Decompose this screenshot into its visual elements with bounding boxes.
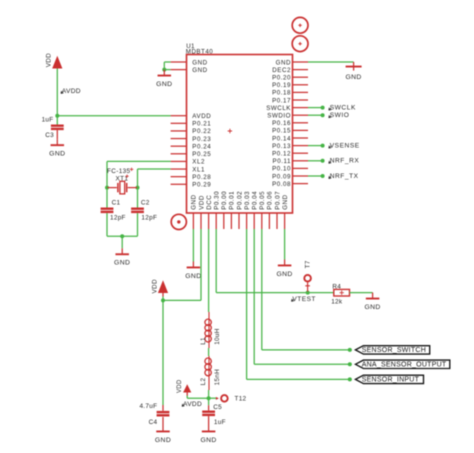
svg-text:P0.04: P0.04 <box>252 191 259 210</box>
svg-text:GND: GND <box>49 151 65 158</box>
node SWIO wire end dot <box>321 113 325 117</box>
svg-text:P0.14: P0.14 <box>272 135 291 142</box>
svg-text:P0.19: P0.19 <box>272 82 291 89</box>
ground below C4 <box>155 426 171 444</box>
node AVDD junction <box>55 114 59 118</box>
wire net ANA_SENSOR_OUTPUT vertical <box>253 229 255 364</box>
U1 right pin P0.11 <box>273 158 308 165</box>
U1 bottom pin P0.05 <box>259 191 266 229</box>
U1 bottom pin DCC <box>206 195 213 229</box>
svg-text:VDD: VDD <box>151 279 158 293</box>
svg-text:GND: GND <box>276 59 291 66</box>
svg-text:GND: GND <box>156 81 172 88</box>
wire down to crystal ground <box>121 236 123 248</box>
svg-text:SWIO: SWIO <box>330 112 350 119</box>
svg-text:VDD: VDD <box>177 379 183 393</box>
wire junction down to C5 <box>208 398 210 410</box>
U1 right pin P0.14 <box>272 135 308 142</box>
svg-text:AVDD: AVDD <box>62 88 81 95</box>
value label 1uF (C5) <box>214 419 226 426</box>
refdes label L2 <box>200 378 207 386</box>
U1 right pin P0.18 <box>272 90 308 97</box>
wire junction to AVDD supply <box>187 397 208 399</box>
wire R4 to ground <box>350 292 373 294</box>
svg-text:C4: C4 <box>149 419 158 426</box>
svg-text:P0.22: P0.22 <box>192 128 211 135</box>
value label 12pF (C2) <box>141 214 157 221</box>
U1 left pin P0.25 <box>171 151 212 158</box>
svg-text:P0.00: P0.00 <box>221 191 228 210</box>
svg-text:SWDIO: SWDIO <box>267 113 291 120</box>
wire VDD down to C4 <box>162 300 164 410</box>
U1 left pin P0.21 <box>171 121 212 128</box>
wire AVDD vertical from VDD arrow <box>56 69 58 116</box>
node NRF_RX wire end dot <box>321 159 325 163</box>
IC U1 MDBT40 body <box>187 55 293 214</box>
ground left of U1 <box>156 70 172 88</box>
IC U1 refdes label U1 <box>186 43 195 50</box>
wire VDD arrow to junction <box>162 297 164 301</box>
wire GND pin2 <box>164 69 170 71</box>
svg-text:C2: C2 <box>141 200 150 207</box>
svg-text:P0.09: P0.09 <box>272 173 291 180</box>
svg-text:T12: T12 <box>235 396 247 403</box>
wire VDD pin down <box>200 229 202 300</box>
wire net SENSOR_SWITCH horizontal <box>262 349 352 351</box>
U1 bottom pin P0.03 <box>244 191 251 229</box>
ground below C1 C2 <box>114 248 130 266</box>
svg-text:P0.28: P0.28 <box>192 174 211 181</box>
ground below U1 left <box>185 262 201 280</box>
U1 bottom pin P0.00 <box>221 191 228 229</box>
svg-text:GND: GND <box>200 437 216 444</box>
refdes label XT1 <box>116 175 129 183</box>
capacitor C1 <box>101 208 114 214</box>
U1 right pin P0.12 <box>272 151 308 158</box>
label AVDD (bottom) <box>182 401 202 408</box>
wire net SWIO stub <box>308 114 323 116</box>
mounting hole H3 (circle with dot) <box>171 214 186 229</box>
svg-text:C1: C1 <box>112 200 121 207</box>
U1 right pin P0.10 <box>272 166 308 173</box>
svg-text:10uH: 10uH <box>214 328 221 345</box>
wire U1 GND bottom-right pin down <box>284 229 286 260</box>
svg-text:GND: GND <box>345 74 361 81</box>
svg-text:P0.30: P0.30 <box>214 191 221 210</box>
wire XL1 to crystal <box>138 169 171 188</box>
svg-text:P0.12: P0.12 <box>272 151 291 158</box>
svg-text:P0.13: P0.13 <box>272 143 291 150</box>
wire P0.30 down <box>215 229 217 293</box>
wire VTEST horizontal <box>216 292 334 294</box>
label net NRF_RX <box>329 158 360 165</box>
U1 right pin P0.15 <box>272 128 308 135</box>
svg-text:AVDD: AVDD <box>183 401 202 408</box>
svg-text:P0.01: P0.01 <box>229 191 236 210</box>
svg-text:VDD: VDD <box>198 195 205 210</box>
wire crystal left to C1 <box>106 188 108 208</box>
svg-text:FC-135: FC-135 <box>107 168 131 175</box>
U1 bottom pin GND <box>191 194 198 229</box>
svg-text:GND: GND <box>192 67 207 74</box>
value label 1uF (C3) <box>42 116 54 123</box>
label net SWCLK <box>329 105 356 112</box>
svg-text:L2: L2 <box>200 378 207 386</box>
wire C2 down <box>137 213 139 236</box>
refdes label L1 <box>200 337 207 345</box>
capacitor C3 <box>51 125 64 131</box>
value label 12pF (C1) <box>110 214 126 221</box>
wire C1 down <box>106 213 108 236</box>
U1 left pin P0.23 <box>171 136 212 143</box>
U1 bottom pin VDD <box>198 195 205 229</box>
U1 right pin DEC2 <box>272 67 308 74</box>
refdes label C1 <box>112 200 121 207</box>
wire L1 to L2 <box>208 348 210 356</box>
svg-text:P0.15: P0.15 <box>272 128 291 135</box>
svg-text:GND: GND <box>191 194 198 209</box>
wire C3 to ground <box>56 130 58 139</box>
wire net NRF_RX stub <box>308 160 323 162</box>
ground right of R4 <box>364 293 380 311</box>
svg-text:VSENSE: VSENSE <box>330 143 360 150</box>
svg-text:NRF_RX: NRF_RX <box>330 158 360 165</box>
wire net VSENSE stub <box>308 145 323 147</box>
U1 right pin SWDIO <box>267 113 308 120</box>
U1 right pin P0.17 <box>272 97 308 104</box>
svg-text:L1: L1 <box>200 337 207 345</box>
svg-text:C3: C3 <box>45 132 54 139</box>
svg-text:GND: GND <box>155 437 171 444</box>
svg-text:P0.05: P0.05 <box>259 191 266 210</box>
svg-text:DEC2: DEC2 <box>272 67 291 74</box>
svg-text:1uF: 1uF <box>214 419 226 426</box>
svg-text:4.7uF: 4.7uF <box>139 403 157 410</box>
wire AVDD supply stub <box>186 396 188 399</box>
svg-text:AVDD: AVDD <box>192 113 211 120</box>
label AVDD <box>61 88 81 95</box>
value label 15nH (L2) <box>214 369 221 386</box>
svg-text:T7: T7 <box>304 260 311 268</box>
U1 right pin P0.16 <box>272 120 308 127</box>
label net VTEST <box>291 296 316 303</box>
capacitor C4 <box>157 411 170 417</box>
svg-text:SWCLK: SWCLK <box>266 105 291 112</box>
svg-text:GND: GND <box>282 194 289 209</box>
label net NRF_TX <box>329 173 359 180</box>
svg-text:P0.02: P0.02 <box>236 191 243 210</box>
U1 left pin P0.22 <box>171 128 212 135</box>
svg-text:P0.24: P0.24 <box>192 143 211 150</box>
node SENSOR_INPUT wire end dot <box>348 377 352 381</box>
svg-text:SWCLK: SWCLK <box>330 105 356 112</box>
U1 left pin GND <box>171 67 208 74</box>
ground below C5 <box>200 426 216 444</box>
inductor L1 <box>205 312 211 348</box>
svg-text:GND: GND <box>276 271 292 278</box>
U1 bottom pin GND <box>282 194 289 229</box>
U1 left pin XL2 <box>171 159 205 166</box>
supply VDD (bottom left) <box>151 279 168 296</box>
svg-text:SENSOR_SWITCH: SENSOR_SWITCH <box>362 347 426 354</box>
U1 right pin P0.13 <box>272 143 308 150</box>
wire net ANA_SENSOR_OUTPUT horizontal <box>254 363 352 365</box>
svg-text:XL2: XL2 <box>192 159 205 166</box>
ground below U1 right <box>276 260 292 278</box>
svg-text:P0.23: P0.23 <box>192 136 211 143</box>
node VSENSE wire end dot <box>321 144 325 148</box>
node crystal left junction <box>105 186 109 190</box>
wire crystal right to C2 <box>137 188 139 208</box>
svg-text:12k: 12k <box>331 298 343 305</box>
value label 10uH (L1) <box>214 328 221 345</box>
wire net SWCLK stub <box>308 107 323 109</box>
node ANA_SENSOR_OUTPUT wire end dot <box>348 362 352 366</box>
label net flag SENSOR_INPUT <box>355 375 423 384</box>
U1 right pin SWCLK <box>266 105 308 112</box>
wire VDD horizontal to supply <box>163 299 201 301</box>
mounting hole H1 (circle with cross) <box>292 17 308 33</box>
svg-text:C5: C5 <box>213 404 222 411</box>
svg-text:P0.10: P0.10 <box>272 166 291 173</box>
U1 right pin P0.19 <box>272 82 308 89</box>
node SWCLK wire end dot <box>321 106 325 110</box>
svg-text:P0.16: P0.16 <box>272 120 291 127</box>
svg-text:P0.03: P0.03 <box>244 191 251 210</box>
wire net SENSOR_INPUT horizontal <box>247 378 352 380</box>
wire C5 to ground <box>208 416 210 425</box>
svg-text:12pF: 12pF <box>110 214 126 221</box>
svg-text:P0.11: P0.11 <box>273 158 291 165</box>
U1 bottom pin P0.30 <box>214 191 221 229</box>
value label FC-135 (XT1) <box>107 168 133 175</box>
U1 left pin P0.29 <box>171 182 212 189</box>
svg-text:ANA_SENSOR_OUTPUT: ANA_SENSOR_OUTPUT <box>362 362 447 369</box>
svg-text:DCC: DCC <box>206 195 213 210</box>
wire GND pin1 elbow <box>164 62 170 70</box>
svg-text:12pF: 12pF <box>141 214 157 221</box>
svg-text:P0.18: P0.18 <box>272 90 291 97</box>
node VTEST junction at T7 <box>306 291 310 295</box>
ground top right <box>345 62 361 81</box>
svg-text:P0.06: P0.06 <box>267 191 274 210</box>
wire junction to testpoint T12 <box>209 397 218 399</box>
svg-text:NRF_TX: NRF_TX <box>330 173 359 180</box>
U1 right pin GND <box>276 59 308 66</box>
label net flag ANA_SENSOR_OUTPUT <box>355 360 449 369</box>
svg-text:GND: GND <box>114 260 130 267</box>
U1 bottom pin P0.02 <box>236 191 243 229</box>
wire AVDD down to C3 <box>56 116 58 125</box>
svg-text:P0.21: P0.21 <box>192 121 211 128</box>
refdes label C4 <box>149 419 158 426</box>
refdes label T7 <box>304 260 311 268</box>
U1 right pin P0.08 <box>272 181 308 188</box>
svg-text:15nH: 15nH <box>214 369 221 386</box>
svg-text:P0.29: P0.29 <box>192 182 211 189</box>
node AVDD bottom junction <box>207 396 211 400</box>
wire U1 GND (top right) <box>308 61 354 63</box>
U1 bottom pin P0.01 <box>229 191 236 229</box>
wire C4 to ground <box>162 417 164 426</box>
ground below C3 <box>49 139 65 157</box>
node SENSOR_SWITCH wire end dot <box>348 348 352 352</box>
U1 right pin P0.20 <box>272 75 308 82</box>
U1 bottom pin P0.07 <box>274 191 281 229</box>
crystal XT1 <box>107 181 138 194</box>
svg-text:GND: GND <box>192 59 207 66</box>
wire XL2 to crystal <box>107 161 171 187</box>
node VDD junction <box>161 298 165 302</box>
wire net SENSOR_INPUT vertical <box>246 229 248 379</box>
supply VDD (top left) <box>46 53 63 69</box>
wire AVDD horizontal to U1 AVDD pin <box>57 115 170 117</box>
node NRF_TX wire end dot <box>321 174 325 178</box>
svg-text:VDD: VDD <box>46 53 53 67</box>
svg-text:P0.25: P0.25 <box>192 151 211 158</box>
wire net SENSOR_SWITCH vertical <box>261 229 263 350</box>
svg-text:VTEST: VTEST <box>292 296 316 303</box>
svg-text:1uF: 1uF <box>42 116 54 123</box>
svg-text:P0.17: P0.17 <box>272 97 291 104</box>
inductor L2 <box>205 356 211 390</box>
svg-text:GND: GND <box>185 273 201 280</box>
U1 right pin P0.09 <box>272 173 308 180</box>
label net VSENSE <box>329 143 360 150</box>
U1 bottom pin P0.04 <box>252 191 259 229</box>
refdes label T12 <box>235 396 247 403</box>
svg-text:P0.08: P0.08 <box>272 181 291 188</box>
wire L2 down to AVDD node <box>208 390 210 398</box>
value label 12k (R4) <box>331 298 343 305</box>
svg-text:SENSOR_INPUT: SENSOR_INPUT <box>362 377 420 384</box>
svg-text:P0.07: P0.07 <box>274 191 281 210</box>
svg-text:GND: GND <box>364 304 380 311</box>
resistor R4 <box>334 289 350 296</box>
U1 left pin XL1 <box>171 166 205 173</box>
U1 left pin GND <box>171 59 208 66</box>
refdes label C3 <box>45 132 54 139</box>
U1 left pin P0.28 <box>171 174 212 181</box>
refdes label R4 <box>332 283 341 290</box>
label net SWIO <box>329 112 350 119</box>
capacitor C2 <box>131 208 144 214</box>
mounting hole H2 (circle with cross) <box>292 36 308 52</box>
U1 left pin AVDD <box>171 113 212 120</box>
node crystal gnd junction <box>120 234 124 238</box>
IC U1 origin cross <box>228 129 232 133</box>
refdes label C5 <box>213 404 222 411</box>
wire net NRF_TX stub <box>308 175 323 177</box>
supply VDD (AVDD, bottom middle) <box>177 379 191 395</box>
wire DCC pin down to L1 <box>208 229 210 312</box>
svg-text:XL1: XL1 <box>192 166 205 173</box>
IC U1 value label MDBT40 <box>186 49 213 56</box>
testpoint T12 <box>216 395 228 402</box>
U1 bottom pin P0.06 <box>267 191 274 229</box>
node crystal right junction <box>136 186 140 190</box>
svg-text:MDBT40: MDBT40 <box>186 49 213 56</box>
value label 4.7uF (C4) <box>139 403 157 410</box>
capacitor C5 <box>202 411 215 417</box>
testpoint T7 <box>304 275 311 292</box>
U1 left pin P0.24 <box>171 143 212 150</box>
wire U1 GND bottom-left pin down <box>192 229 194 262</box>
label net flag SENSOR_SWITCH <box>355 346 429 355</box>
node GND junction (left of U1) <box>162 68 166 72</box>
refdes label C2 <box>141 200 150 207</box>
svg-text:R4: R4 <box>332 283 341 290</box>
svg-text:P0.20: P0.20 <box>272 75 291 82</box>
wire joining C1 and C2 bottoms <box>107 235 138 237</box>
